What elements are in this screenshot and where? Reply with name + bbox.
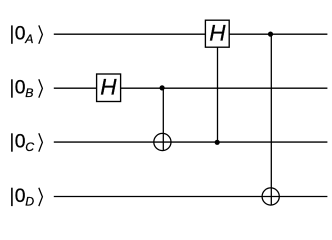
- svg-text:B: B: [25, 86, 33, 100]
- wire qubit A: [54, 33, 328, 35]
- node A label |0_A>: [12, 24, 43, 47]
- CNOT target on qubit D: [262, 188, 279, 205]
- wire vertical CNOT B->C: [162, 88, 164, 151]
- svg-text:0: 0: [15, 78, 26, 99]
- wire qubit C: [54, 141, 328, 143]
- wire qubit D: [54, 196, 328, 198]
- wire qubit B: [54, 87, 328, 89]
- gate H2 on qubit A: [205, 20, 229, 47]
- control dot on qubit A: [268, 31, 273, 36]
- CNOT target on qubit C: [154, 133, 171, 150]
- svg-text:C: C: [25, 140, 34, 154]
- svg-text:A: A: [24, 32, 33, 46]
- svg-text:0: 0: [15, 186, 26, 207]
- wire vertical controlled-H A->C: [217, 47, 219, 142]
- node D label |0_D>: [12, 186, 43, 209]
- control dot on qubit C: [215, 140, 220, 145]
- svg-text:H: H: [100, 75, 117, 100]
- control dot on qubit B: [160, 85, 165, 90]
- svg-text:H: H: [209, 20, 226, 45]
- svg-text:D: D: [25, 194, 34, 208]
- gate H1 on qubit B: [97, 74, 121, 102]
- wire vertical CNOT A->D: [270, 34, 272, 205]
- svg-text:0: 0: [15, 132, 26, 153]
- node B label |0_B>: [12, 78, 43, 101]
- svg-text:0: 0: [15, 24, 26, 45]
- node C label |0_C>: [12, 132, 43, 155]
